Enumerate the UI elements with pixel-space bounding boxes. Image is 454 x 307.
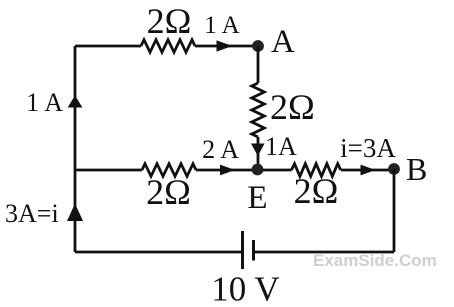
svg-text:2 A: 2 A bbox=[202, 135, 239, 164]
wire right vertical bbox=[393, 169, 396, 252]
svg-text:1 A: 1 A bbox=[204, 12, 239, 39]
svg-text:1 A: 1 A bbox=[26, 88, 63, 117]
wire top-right horizontal segment bbox=[195, 45, 253, 48]
wire top-left horizontal segment bbox=[75, 45, 141, 48]
current arrow 1 A on left wire bbox=[68, 96, 83, 108]
resistor 2Ω middle-left bbox=[142, 164, 196, 177]
svg-text:1A: 1A bbox=[265, 132, 297, 161]
svg-text:A: A bbox=[271, 24, 295, 60]
svg-text:B: B bbox=[406, 151, 427, 187]
wire right resistor to B bbox=[341, 169, 394, 172]
resistor 2Ω middle-right bbox=[292, 164, 341, 177]
battery long plate bbox=[241, 231, 244, 269]
svg-text:2Ω: 2Ω bbox=[294, 171, 339, 211]
wire middle E to right resistor bbox=[262, 169, 292, 172]
node B bbox=[388, 163, 400, 175]
wire middle left segment bbox=[75, 169, 142, 172]
battery short plate bbox=[252, 240, 255, 261]
svg-text:2Ω: 2Ω bbox=[147, 1, 192, 41]
current arrow on top wire bbox=[217, 40, 233, 51]
wire bottom left segment bbox=[75, 251, 242, 254]
wire bottom right segment bbox=[255, 251, 395, 254]
svg-text:i=3A: i=3A bbox=[340, 133, 396, 163]
wire vertical A to resistor bbox=[257, 46, 260, 83]
node E bbox=[252, 164, 264, 176]
svg-text:E: E bbox=[247, 180, 267, 216]
node A bbox=[252, 40, 264, 52]
current arrow 3A=i on left wire bbox=[67, 204, 83, 222]
current arrow 1A down bbox=[251, 144, 265, 157]
wire middle between resistor and E bbox=[196, 169, 253, 172]
svg-text:3A=i: 3A=i bbox=[5, 199, 59, 228]
svg-text:2Ω: 2Ω bbox=[146, 172, 191, 212]
wire vertical resistor to E bbox=[257, 137, 260, 170]
resistor 2Ω vertical bbox=[252, 83, 265, 137]
current arrow 2 A on middle wire bbox=[220, 165, 235, 176]
svg-text:10 V: 10 V bbox=[211, 270, 279, 307]
resistor 2Ω top bbox=[141, 40, 195, 53]
svg-text:ExamSide.Com: ExamSide.Com bbox=[313, 251, 437, 270]
wire left vertical bbox=[74, 46, 77, 252]
current arrow i=3A bbox=[361, 165, 376, 176]
svg-text:2Ω: 2Ω bbox=[270, 87, 315, 127]
